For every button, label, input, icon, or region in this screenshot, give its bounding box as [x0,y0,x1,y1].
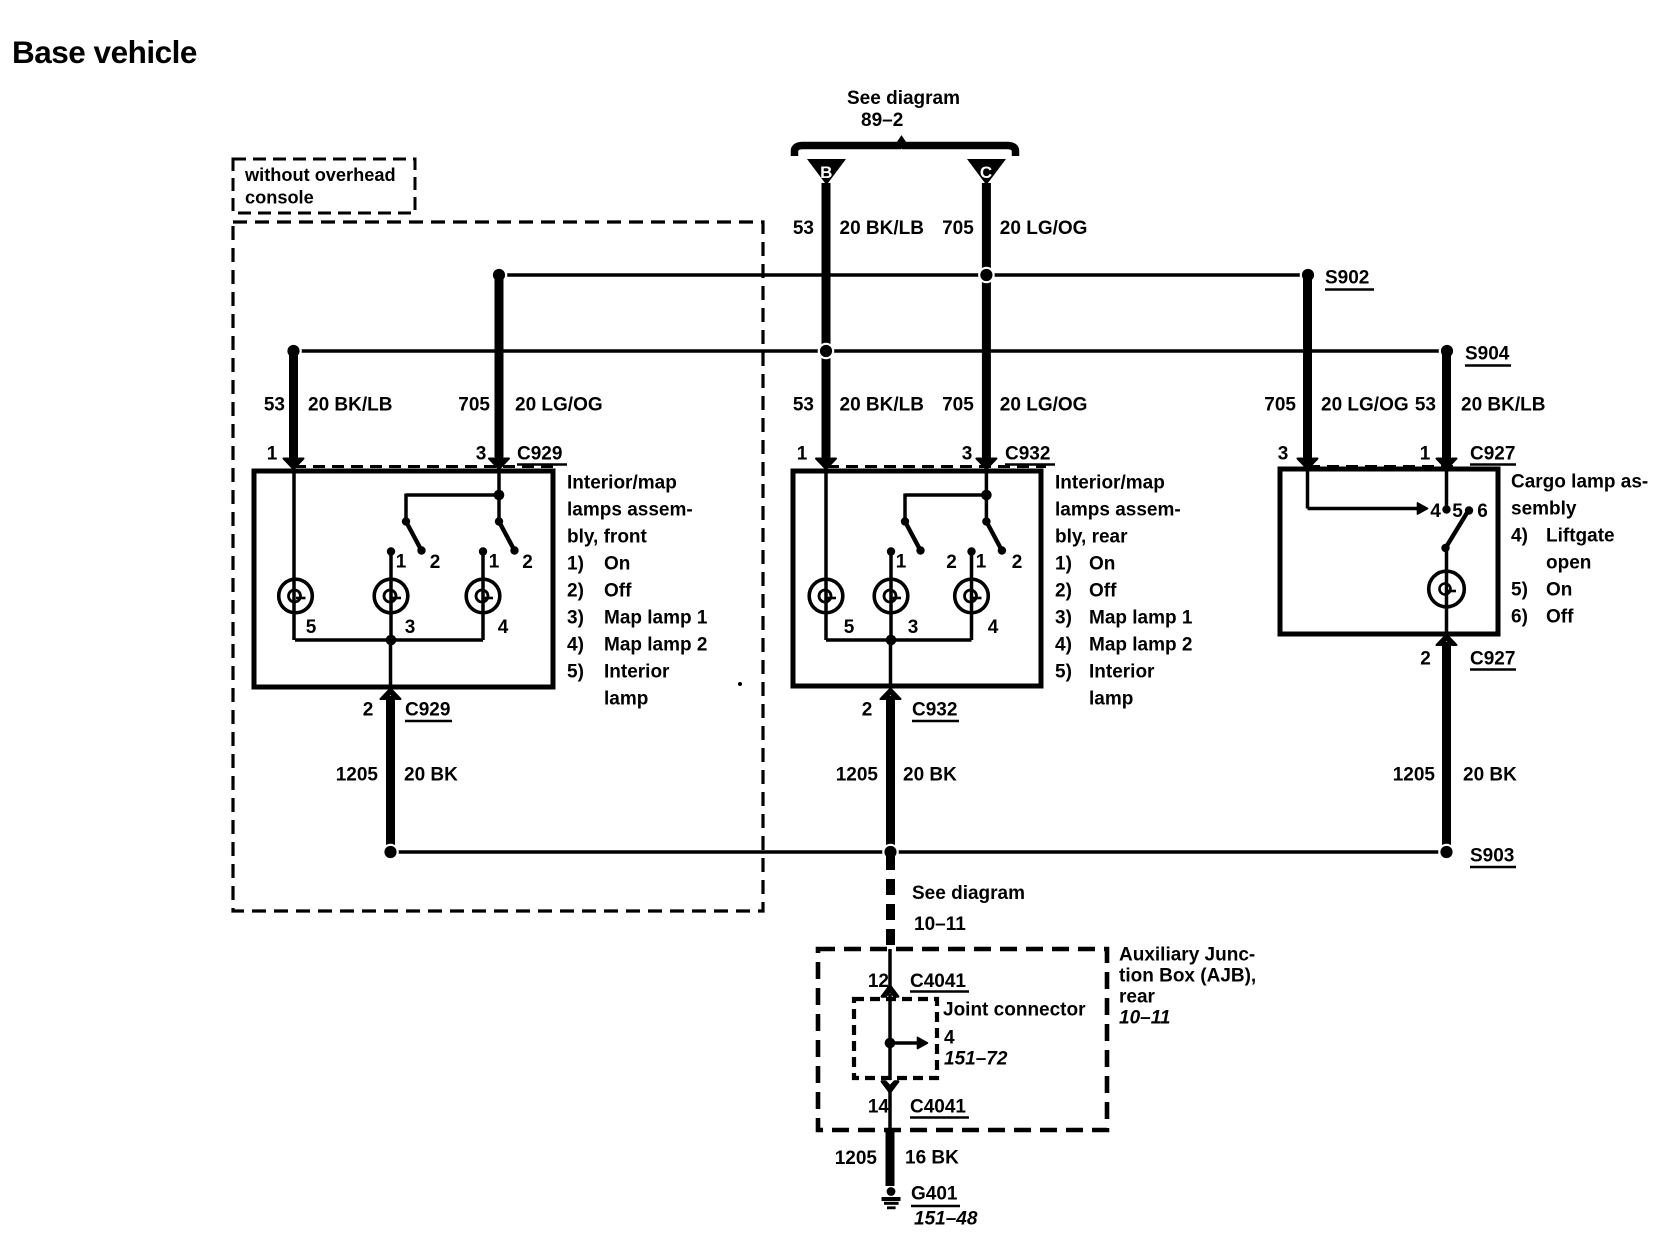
svg-text:1: 1 [489,552,500,573]
svg-text:1205: 1205 [836,765,879,786]
svg-text:3: 3 [1278,444,1289,465]
svg-text:20 BK/LB: 20 BK/LB [308,395,392,416]
node S903 centre [882,844,899,861]
rear box: bus node [886,635,897,646]
wire 1205 20 BK front [386,696,395,852]
front box: map lamp 2 (4) [466,579,500,613]
svg-text:20 BK/LB: 20 BK/LB [840,395,924,416]
svg-text:10–11: 10–11 [914,914,966,935]
svg-text:2: 2 [522,552,533,573]
svg-text:20 BK: 20 BK [1463,765,1517,786]
cargo box: contact labels 4 5 6 [1430,501,1488,522]
svg-text:C929: C929 [517,444,562,465]
svg-text:See diagram: See diagram [912,883,1025,904]
svg-text:6): 6) [1511,607,1528,628]
note See diagram 89-2 [847,88,960,131]
svg-text:20 LG/OG: 20 LG/OG [1000,218,1088,239]
svg-text:2: 2 [1420,649,1431,670]
label row circuit right box [1264,395,1545,416]
rear box: ground bus wire [826,638,972,642]
svg-text:Joint connector: Joint connector [943,1000,1086,1021]
svg-text:On: On [604,554,630,575]
svg-text:1205: 1205 [835,1148,878,1169]
svg-text:1: 1 [797,444,808,465]
svg-text:4): 4) [567,635,584,656]
joint connector dashed box [854,999,937,1078]
svg-text:20 LG/OG: 20 LG/OG [1321,395,1409,416]
svg-text:rear: rear [1119,987,1156,1008]
svg-text:C: C [980,163,992,182]
svg-text:2: 2 [1012,552,1023,573]
Auxiliary Junction Box dashed outline [818,949,1107,1130]
pin entry arrows (terminals into connectors) [284,459,1457,470]
svg-text:Base vehicle: Base vehicle [12,34,197,70]
svg-text:open: open [1546,553,1591,574]
label G401 [911,1184,978,1230]
svg-text:without overhead: without overhead [244,165,396,185]
svg-text:10–11: 10–11 [1119,1008,1170,1029]
wire 1205 16 BK [886,1130,895,1186]
svg-text:Map lamp 1: Map lamp 1 [604,608,708,629]
svg-text:lamp: lamp [604,689,648,710]
svg-text:1: 1 [267,444,278,465]
front box: wire pin1 to interior lamp [292,469,296,640]
svg-text:Cargo lamp as-: Cargo lamp as- [1511,472,1648,493]
rear box: interior lamp (5) [809,579,843,613]
rear box: switch 2 (map lamp 2) [982,517,1006,554]
svg-text:16 BK: 16 BK [905,1148,959,1169]
svg-text:Off: Off [604,581,632,602]
svg-text:S904: S904 [1465,344,1510,365]
wire 53 to C927 pin 1 [1442,351,1451,463]
connector dashed line C927 [1308,465,1459,468]
front box: switch position labels [396,552,533,574]
wire through joint connector [888,994,892,1080]
svg-text:1: 1 [1420,444,1431,465]
joint connector branch arrow [890,1037,928,1048]
node S903 right end [1438,844,1455,861]
svg-text:bly, rear: bly, rear [1055,527,1128,548]
rear box: switch feed wire from pin 3 [905,469,986,522]
svg-text:4: 4 [498,617,509,638]
without overhead console label box [233,159,415,213]
svg-text:Map lamp 2: Map lamp 2 [604,635,707,656]
svg-text:Map lamp 2: Map lamp 2 [1089,635,1192,656]
svg-text:3: 3 [962,444,973,465]
front box: contact 1 of switch 1 [387,547,395,640]
svg-text:lamp: lamp [1089,689,1133,710]
annotation rear box [1055,473,1193,710]
label S903 [1470,846,1516,868]
wire 53 to C929 pin 1 [289,351,298,463]
wire into joint connector [888,949,892,986]
annotation front box [567,473,708,710]
node S904 on wire B [818,343,835,360]
svg-text:G401: G401 [911,1184,958,1205]
node S904 right end [1439,343,1456,360]
label S902 [1325,268,1374,290]
svg-text:705: 705 [942,218,974,239]
svg-text:5): 5) [567,662,584,683]
front box: switch 2 (map lamp 2) [495,517,519,554]
svg-text:1: 1 [976,552,987,573]
svg-text:2: 2 [862,700,873,721]
front box: switch feed wire from pin 3 [406,469,499,522]
svg-text:lamps assem-: lamps assem- [567,500,693,521]
svg-text:C927: C927 [1470,649,1515,670]
svg-text:14: 14 [868,1097,890,1118]
rear box: map lamp 1 (3) [874,579,908,613]
svg-text:3: 3 [405,617,416,638]
label row circuit left box [264,395,603,416]
pin exit arrows (terminals out of connectors) [381,635,1457,700]
svg-text:20 LG/OG: 20 LG/OG [1000,395,1088,416]
rear box: node on feed [981,490,992,501]
svg-text:S902: S902 [1325,268,1369,289]
wire 705 to C929 pin 3 [495,275,504,463]
node S902 left end [491,267,508,284]
svg-text:Interior/map: Interior/map [1055,473,1165,494]
connector triangle B [807,159,846,185]
svg-text:6: 6 [1477,501,1488,522]
label 1205 20 BK rear [836,765,957,786]
front box: bus node [386,635,397,646]
svg-text:On: On [1089,554,1115,575]
rear box: contact 1 of switch 2 [967,547,975,640]
front box: contact 1 of switch 2 [479,547,487,640]
front box: ground bus wire [295,638,483,642]
svg-text:53: 53 [793,218,814,239]
cargo lamp assembly box [1280,469,1498,634]
svg-text:3: 3 [476,444,487,465]
svg-text:12: 12 [868,971,889,992]
svg-text:89–2: 89–2 [861,110,903,131]
svg-text:20 LG/OG: 20 LG/OG [515,395,603,416]
connector triangle C [967,159,1006,185]
svg-text:Off: Off [1089,581,1117,602]
pin labels 12 C4041 [868,971,969,992]
svg-text:S903: S903 [1470,846,1514,867]
wire to AJB edge [888,1092,892,1130]
splice wire S902 [499,273,1308,277]
node S902 on wire C [978,267,995,284]
svg-text:2: 2 [363,700,374,721]
svg-text:5): 5) [1055,662,1072,683]
note See diagram 10-11 [912,883,1025,935]
svg-text:2): 2) [567,581,584,602]
pin labels C932 [797,444,1055,465]
svg-text:20 BK/LB: 20 BK/LB [1461,395,1545,416]
svg-text:C4041: C4041 [910,971,966,992]
front box: map lamp 1 (3) [374,579,408,613]
wire to AJB (off-page dashed) [886,854,895,949]
cargo box: wire pin 1 to contact 5 [1442,469,1450,514]
node S903 left end [382,844,399,861]
svg-text:Interior/map: Interior/map [567,473,677,494]
without overhead console region dashed outline [233,222,763,911]
svg-text:Off: Off [1546,607,1574,628]
svg-text:Auxiliary Junc-: Auxiliary Junc- [1119,945,1255,966]
label row circuit 53 / 705 upper [793,218,1088,239]
rear box: map lamp 2 (4) [955,579,989,613]
pin 2 labels C927 bottom [1420,649,1516,670]
svg-text:53: 53 [1415,395,1436,416]
svg-text:5: 5 [1452,501,1463,522]
svg-text:705: 705 [1264,395,1296,416]
cargo box: lamp wire [1445,548,1449,634]
svg-text:Interior: Interior [604,662,670,683]
pin 2 labels C932 bottom [862,700,959,722]
pin 2 labels C929 bottom [363,700,452,722]
front box: switch 1 (map lamp 1) [402,517,426,554]
svg-text:1205: 1205 [1393,765,1436,786]
splice wire S904 [294,349,1448,353]
svg-text:1): 1) [1055,554,1072,575]
svg-text:C927: C927 [1470,444,1515,465]
svg-text:C932: C932 [1005,444,1050,465]
speck artifact [738,682,742,686]
front box: exit wire pin 2 [389,640,393,687]
label row circuit middle box [793,395,1088,416]
svg-text:1: 1 [396,552,407,573]
svg-text:sembly: sembly [1511,499,1577,520]
svg-text:3: 3 [908,617,919,638]
svg-text:5): 5) [1511,580,1528,601]
cargo box: cargo lamp [1429,571,1465,607]
svg-text:5: 5 [306,617,317,638]
svg-text:Map lamp 1: Map lamp 1 [1089,608,1193,629]
cargo box: feed wire from pin 3 to contact 4 [1308,469,1428,514]
svg-text:4: 4 [988,617,999,638]
svg-text:See diagram: See diagram [847,88,960,109]
svg-text:lamps assem-: lamps assem- [1055,500,1181,521]
front box: node on feed [494,490,505,501]
wire 705 20 LG/OG from C [982,183,991,463]
svg-text:bly, front: bly, front [567,527,648,548]
svg-text:tion Box (AJB),: tion Box (AJB), [1119,966,1256,987]
svg-text:C932: C932 [912,700,957,721]
pin 12 arrow [882,986,898,997]
interior/map lamps assembly rear box [793,471,1041,686]
rear box: lamp number labels [844,617,999,638]
cargo box: contact 6 [1465,506,1473,514]
svg-text:On: On [1546,580,1572,601]
wire 1205 20 BK rear [886,696,895,852]
annotation cargo box [1511,472,1648,628]
svg-text:3): 3) [567,608,584,629]
svg-text:Liftgate: Liftgate [1546,526,1615,547]
svg-text:1205: 1205 [336,765,379,786]
rear box: exit wire pin 2 [889,640,893,686]
svg-text:4): 4) [1055,635,1072,656]
svg-text:2): 2) [1055,581,1072,602]
front box: interior lamp (5) [279,579,313,613]
connector dashed line C929 [294,465,558,468]
interior/map lamps assembly front box [254,471,553,687]
svg-text:4: 4 [1430,501,1441,522]
pin labels C927 [1278,444,1516,465]
svg-text:1: 1 [896,552,907,573]
annotation AJB [1119,945,1256,1029]
svg-text:151–72: 151–72 [944,1049,1008,1070]
svg-text:Interior: Interior [1089,662,1155,683]
pin labels C929 [267,444,567,465]
label 1205 20 BK cargo [1393,765,1517,786]
svg-text:20 BK: 20 BK [903,765,957,786]
svg-text:20 BK/LB: 20 BK/LB [840,218,924,239]
wire 53 20 BK/LB from B [822,183,831,463]
bracket to diagram 89-2 [795,142,1016,156]
svg-text:4: 4 [944,1028,955,1049]
front box: lamp number labels [306,617,509,638]
svg-text:4): 4) [1511,526,1528,547]
svg-text:B: B [820,163,832,182]
svg-text:2: 2 [430,552,441,573]
svg-text:705: 705 [942,395,974,416]
label S904 [1465,344,1511,366]
wire 705 to C927 pin 3 [1303,275,1312,463]
label 1205 16 BK [835,1148,959,1170]
rear box: wire pin1 to interior lamp [824,469,828,640]
splice wire S903 [391,850,1447,854]
svg-text:1): 1) [567,554,584,575]
svg-text:53: 53 [264,395,285,416]
joint connector node [885,1038,896,1049]
rear box: contact 1 of switch 1 [887,547,895,640]
connector dashed line C932 [827,465,1046,468]
pin labels 14 C4041 [868,1097,969,1118]
svg-text:705: 705 [458,395,490,416]
svg-text:2: 2 [946,552,957,573]
node S902 right end [1300,267,1317,284]
svg-text:53: 53 [793,395,814,416]
svg-text:20 BK: 20 BK [404,765,458,786]
label Joint connector [943,1000,1086,1070]
rear box: switch 1 (map lamp 1) [901,517,925,554]
cargo box: switch blade [1441,512,1467,552]
svg-text:151–48: 151–48 [914,1209,978,1230]
rear box: switch position labels [896,552,1023,574]
svg-text:C4041: C4041 [910,1097,966,1118]
svg-text:C929: C929 [405,700,450,721]
wire 1205 20 BK cargo [1442,642,1451,852]
ground G401 [882,1187,901,1209]
label 1205 20 BK front [336,765,458,786]
svg-text:5: 5 [844,617,855,638]
pin 14 arrow [882,1082,898,1093]
svg-text:3): 3) [1055,608,1072,629]
node S904 left end [285,343,302,360]
svg-text:console: console [245,188,314,208]
